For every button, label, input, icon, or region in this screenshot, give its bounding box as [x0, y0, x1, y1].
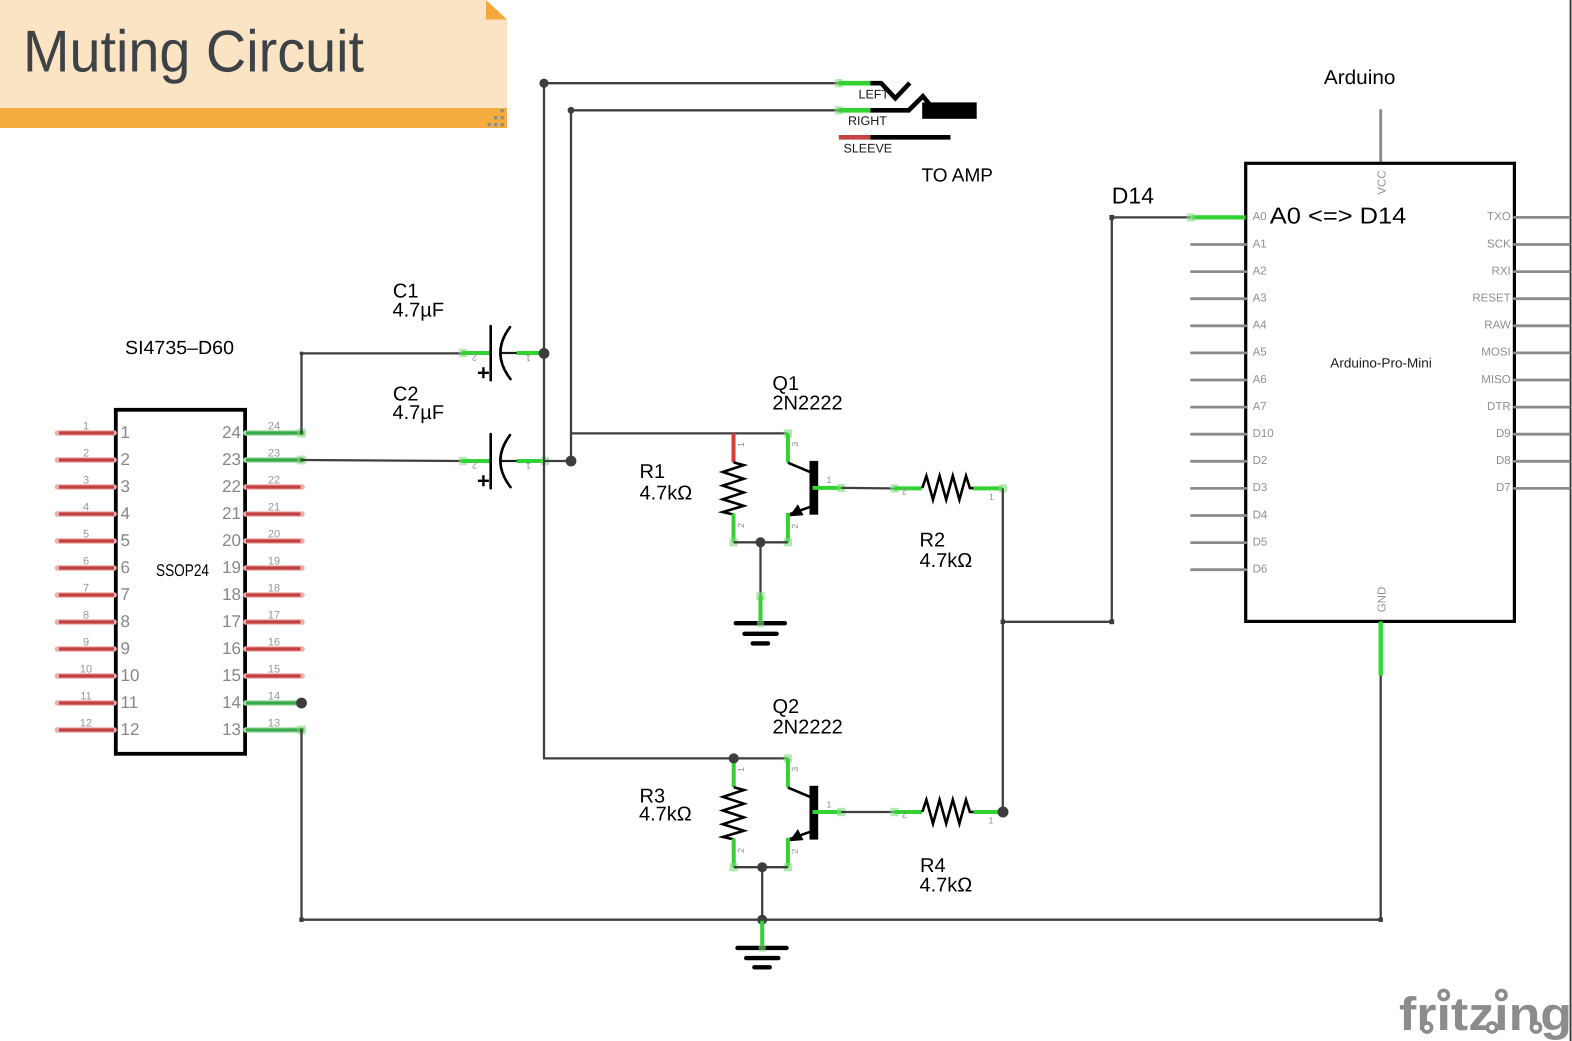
svg-text:23: 23 [268, 448, 280, 460]
svg-text:5: 5 [121, 531, 130, 550]
svg-text:8: 8 [83, 610, 89, 622]
R3 pin2 lead [732, 839, 736, 868]
R4 wire from Q2 base [841, 811, 894, 813]
svg-text:13: 13 [222, 720, 241, 739]
R2 zigzag [922, 476, 973, 500]
svg-text:4: 4 [121, 504, 130, 523]
svg-text:10: 10 [121, 666, 140, 685]
wire RIGHT net top horizontal to jack [571, 109, 839, 111]
svg-text:D5: D5 [1253, 536, 1268, 548]
svg-text:4.7kΩ: 4.7kΩ [920, 875, 973, 897]
ground bus wire [302, 675, 1381, 919]
junction dot R4 pin1 node [998, 807, 1009, 818]
svg-text:4.7µF: 4.7µF [393, 402, 445, 424]
svg-text:4.7kΩ: 4.7kΩ [640, 483, 693, 505]
R2 pin2 lead [890, 484, 898, 492]
R3 pin1 lead [732, 758, 736, 787]
wire D14 up and to A0 [1112, 217, 1191, 621]
junction dot C2/RIGHT node [566, 456, 577, 467]
junction dot RIGHT corner [568, 107, 575, 114]
svg-text:VCC: VCC [1377, 170, 1389, 194]
svg-text:19: 19 [222, 558, 241, 577]
svg-text:Arduino: Arduino [1324, 67, 1396, 89]
Q1 emitter arrow [789, 504, 803, 516]
svg-text:13: 13 [268, 718, 280, 730]
svg-text:RIGHT: RIGHT [848, 114, 887, 128]
wire RIGHT net vertical x=571 [570, 110, 572, 461]
svg-text:SLEEVE: SLEEVE [844, 141, 893, 155]
svg-text:1: 1 [736, 767, 746, 772]
banner grip dots [488, 109, 504, 126]
svg-text:19: 19 [268, 556, 280, 568]
svg-text:9: 9 [83, 637, 89, 649]
wire pin24 to C1 [302, 353, 463, 433]
svg-text:18: 18 [222, 585, 241, 604]
svg-text:A0 <=> D14: A0 <=> D14 [1270, 202, 1407, 228]
Q1 pin3 collector lead [784, 429, 792, 437]
C2 pin2 lead [459, 457, 467, 465]
wire Q2 emitter bottom [734, 867, 788, 920]
svg-text:Q2: Q2 [773, 696, 800, 718]
svg-text:7: 7 [83, 583, 89, 595]
svg-text:RXI: RXI [1492, 265, 1511, 277]
svg-text:3: 3 [790, 767, 800, 772]
svg-text:20: 20 [268, 529, 280, 541]
svg-text:2N2222: 2N2222 [772, 393, 842, 415]
C1 pin2 lead [459, 349, 467, 357]
svg-text:2: 2 [902, 487, 907, 497]
chip U1 left pins 1-12 [58, 421, 140, 739]
svg-text:A7: A7 [1253, 401, 1267, 413]
svg-text:6: 6 [121, 558, 130, 577]
svg-text:R2: R2 [920, 530, 946, 552]
svg-text:SCK: SCK [1487, 238, 1511, 250]
svg-text:2: 2 [736, 848, 746, 853]
right edge border [1570, 0, 1572, 1041]
svg-text:2N2222: 2N2222 [773, 716, 843, 738]
svg-text:2: 2 [736, 523, 746, 528]
R3 zigzag [723, 787, 744, 839]
svg-text:9: 9 [121, 639, 130, 658]
wire LEFT net top horizontal to jack [544, 82, 839, 84]
svg-text:2: 2 [121, 450, 130, 469]
svg-text:8: 8 [121, 612, 130, 631]
svg-text:RESET: RESET [1472, 293, 1510, 305]
Q2 emitter diagonal [788, 832, 811, 840]
svg-text:1: 1 [989, 492, 994, 502]
wire LEFT net vertical x=544 [544, 83, 788, 758]
svg-text:SSOP24: SSOP24 [156, 561, 209, 580]
title banner note [0, 0, 507, 128]
wire D14 branch horizontal [1003, 621, 1112, 623]
wire Q1 emitter to ground [734, 542, 788, 598]
R2 pin1 lead [974, 486, 1003, 490]
svg-text:2: 2 [790, 524, 800, 529]
svg-text:16: 16 [222, 639, 241, 658]
fritzing logo [1399, 986, 1572, 1040]
C1 pin1 lead [502, 352, 518, 354]
wire C2 pin1 to RIGHT net [545, 460, 571, 462]
svg-text:TO AMP: TO AMP [922, 166, 994, 187]
svg-text:2: 2 [472, 353, 477, 363]
svg-text:LEFT: LEFT [859, 88, 890, 102]
svg-text:15: 15 [222, 666, 241, 685]
C2 plus plate [489, 434, 492, 488]
Q2 pin2 emitter lead [786, 838, 790, 867]
svg-text:DTR: DTR [1487, 401, 1511, 413]
R4 zigzag [922, 800, 973, 824]
svg-text:5: 5 [83, 529, 89, 541]
chip U1 body SSOP24 [116, 410, 245, 754]
svg-text:3: 3 [121, 477, 130, 496]
R1 pin2 lead [732, 514, 736, 543]
R2 wire from Q1 base [841, 487, 894, 490]
wire pin13 down to ground bus [300, 730, 302, 920]
R4 pin2 lead [890, 808, 898, 816]
ground symbol GND2 (Q2 emitter) [734, 862, 788, 967]
svg-text:4.7kΩ: 4.7kΩ [920, 550, 973, 572]
jack RIGHT pin [835, 106, 843, 114]
Q2 pin3 collector lead [784, 754, 792, 762]
svg-text:6: 6 [83, 556, 89, 568]
R1 pin1 lead (red, unconnected) [732, 433, 736, 462]
svg-text:2: 2 [790, 849, 800, 854]
svg-text:17: 17 [268, 610, 280, 622]
svg-text:A5: A5 [1253, 347, 1267, 359]
svg-text:1: 1 [827, 475, 832, 485]
svg-text:15: 15 [268, 664, 280, 676]
wire pin23 to C2 [302, 460, 463, 461]
Q1 emitter diagonal [788, 507, 811, 515]
svg-text:18: 18 [268, 583, 280, 595]
svg-text:A3: A3 [1253, 293, 1267, 305]
Q2 collector diagonal [788, 788, 811, 798]
svg-text:A1: A1 [1253, 238, 1267, 250]
svg-text:D14: D14 [1112, 183, 1154, 209]
svg-text:1: 1 [526, 461, 531, 471]
svg-text:A0: A0 [1253, 211, 1267, 223]
svg-text:1: 1 [526, 353, 531, 363]
svg-text:17: 17 [222, 612, 241, 631]
C1 plus sign [478, 367, 489, 378]
svg-text:4.7kΩ: 4.7kΩ [639, 804, 692, 826]
Q1 pin1 base lead [813, 486, 842, 490]
svg-text:1: 1 [121, 423, 130, 442]
Q2 pin1 base lead [813, 810, 842, 814]
svg-text:1: 1 [989, 816, 994, 826]
svg-text:Arduino-Pro-Mini: Arduino-Pro-Mini [1330, 356, 1432, 371]
junction dot Q2 wire node at R3 top [729, 753, 739, 763]
C2 plus sign [478, 475, 489, 486]
svg-text:22: 22 [268, 475, 280, 487]
svg-text:23: 23 [222, 450, 241, 469]
Arduino left pins [1192, 238, 1274, 575]
svg-text:12: 12 [80, 718, 92, 730]
svg-text:RAW: RAW [1484, 320, 1511, 332]
svg-text:24: 24 [268, 421, 280, 433]
svg-text:GND: GND [1377, 587, 1389, 613]
Q1 base bar [810, 461, 819, 515]
jack LEFT pin [835, 79, 843, 87]
svg-text:16: 16 [268, 637, 280, 649]
Q2 emitter arrow [789, 829, 803, 841]
svg-text:14: 14 [268, 691, 280, 703]
svg-text:2: 2 [902, 810, 907, 820]
svg-text:1: 1 [736, 442, 746, 447]
svg-text:7: 7 [121, 585, 130, 604]
svg-text:D7: D7 [1496, 482, 1511, 494]
Q1 pin2 emitter lead [786, 513, 790, 542]
svg-text:A2: A2 [1253, 265, 1267, 277]
Arduino right pins [1472, 211, 1569, 494]
svg-text:MOSI: MOSI [1481, 347, 1510, 359]
svg-text:A6: A6 [1253, 374, 1267, 386]
svg-text:1: 1 [827, 799, 832, 809]
svg-text:TXO: TXO [1487, 211, 1511, 223]
svg-text:MISO: MISO [1481, 374, 1510, 386]
svg-text:A4: A4 [1253, 320, 1268, 332]
C2 curved plate [500, 435, 510, 487]
svg-text:2: 2 [472, 461, 477, 471]
svg-text:14: 14 [222, 693, 241, 712]
svg-text:12: 12 [121, 720, 140, 739]
svg-text:11: 11 [80, 691, 91, 703]
svg-text:21: 21 [268, 502, 280, 514]
svg-text:24: 24 [222, 423, 241, 442]
svg-text:D9: D9 [1496, 428, 1511, 440]
C1 plus plate [489, 326, 492, 380]
svg-text:D2: D2 [1253, 455, 1268, 467]
svg-text:D10: D10 [1253, 428, 1274, 440]
svg-text:4.7µF: 4.7µF [393, 299, 445, 321]
jack SLEEVE pin [839, 135, 871, 140]
svg-text:11: 11 [121, 693, 139, 712]
svg-text:3: 3 [83, 475, 89, 487]
svg-text:21: 21 [222, 504, 241, 523]
svg-text:D6: D6 [1253, 564, 1268, 576]
junction dot C1 pin1 node [539, 348, 550, 359]
wire R2 down to R4 and D14 branch [1002, 488, 1004, 812]
svg-text:D8: D8 [1496, 455, 1511, 467]
Arduino body [1246, 163, 1515, 621]
R1 zigzag [723, 462, 744, 514]
svg-text:2: 2 [83, 448, 89, 460]
svg-text:Muting Circuit: Muting Circuit [23, 19, 364, 85]
svg-text:1: 1 [83, 421, 89, 433]
wire RIGHT net to Q1 collector [571, 432, 788, 434]
jack body rect [922, 102, 977, 118]
Q2 base bar [810, 786, 819, 840]
C2 pin1 lead [502, 460, 518, 462]
chip U1 right pins 24-13 [222, 421, 307, 739]
svg-text:10: 10 [80, 664, 92, 676]
junction dot R3 top node (redraw) [729, 753, 739, 763]
junction dot chip pin14 [296, 698, 307, 709]
R4 pin1 lead [974, 810, 1002, 814]
Q1 collector diagonal [788, 463, 811, 473]
ground symbol GND1 (Q1 emitter) [734, 537, 788, 643]
svg-text:R1: R1 [640, 461, 666, 483]
Arduino VCC stub [1379, 109, 1382, 163]
svg-text:4: 4 [83, 502, 89, 514]
C1 curved plate [500, 327, 510, 379]
svg-text:22: 22 [222, 477, 241, 496]
svg-text:20: 20 [222, 531, 241, 550]
Arduino pin A0 (connected) [1192, 215, 1246, 219]
junction dot LEFT/jack corner [539, 79, 548, 88]
svg-text:3: 3 [790, 442, 800, 447]
svg-text:D4: D4 [1253, 509, 1268, 521]
svg-text:SI4735–D60: SI4735–D60 [125, 338, 234, 359]
svg-text:D3: D3 [1253, 482, 1268, 494]
